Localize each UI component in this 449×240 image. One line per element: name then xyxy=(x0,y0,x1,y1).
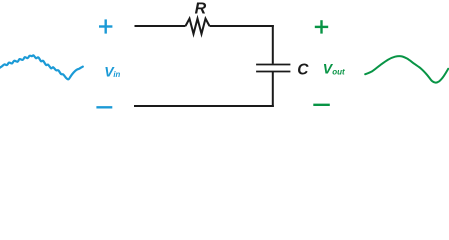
node - (Vin) xyxy=(96,106,112,108)
node + (Vin) xyxy=(99,19,112,33)
wire (top left, source to resistor) xyxy=(135,25,186,27)
input waveform (noisy, Vin) xyxy=(0,55,83,79)
capacitor C (two plates) xyxy=(256,65,290,72)
output waveform (sine, Vout) xyxy=(365,56,448,83)
wire (top right, resistor to corner) xyxy=(210,25,274,27)
svg-text:in: in xyxy=(113,70,120,79)
resistor R (zigzag) xyxy=(186,19,210,34)
wire (right vertical, upper: corner to capacitor) xyxy=(272,25,274,64)
node - (Vout) xyxy=(313,104,330,106)
svg-text:C: C xyxy=(297,62,309,79)
wire (bottom return) xyxy=(134,105,274,107)
svg-text:out: out xyxy=(332,68,345,77)
svg-text:R: R xyxy=(195,1,207,18)
node + (Vout) xyxy=(315,20,328,33)
wire (right vertical, lower: capacitor to bottom corner) xyxy=(272,72,274,108)
